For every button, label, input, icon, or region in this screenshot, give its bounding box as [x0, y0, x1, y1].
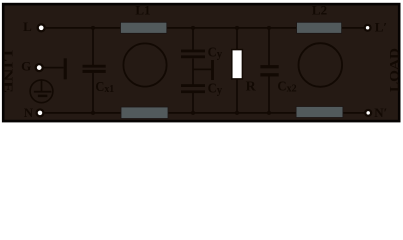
terminal N [37, 110, 44, 117]
choke 1 bottom winding bar [121, 107, 168, 119]
wire Cx2 branch upper [268, 28, 270, 66]
svg-text:Cx2: Cx2 [277, 80, 297, 95]
chassis stub plate at G [64, 58, 67, 79]
wire Cx2 branch lower [268, 76, 270, 113]
wire bottom rail [45, 112, 365, 114]
svg-text:L′: L′ [375, 20, 387, 35]
ground bar short [38, 95, 47, 97]
node junction top Cx2 [267, 26, 271, 30]
wire R branch upper [236, 28, 238, 50]
wire G terminal lead [44, 67, 64, 69]
capacitor Cx2 plate 2 [260, 73, 278, 76]
resistor R body [232, 50, 243, 79]
svg-text:R: R [246, 79, 257, 94]
inductor L2 winding bar [297, 22, 342, 33]
node junction bottom Cy [191, 111, 195, 115]
wire top rail [46, 27, 364, 29]
wire Cy midpoint stub [193, 68, 211, 70]
node junction bottom Cx1 [91, 111, 95, 115]
capacitor Cx1 plate 1 [83, 65, 106, 68]
node junction top R [235, 26, 239, 30]
svg-text:LOAD: LOAD [386, 48, 401, 92]
wire Cy branch upper [192, 28, 194, 51]
choke 1 core circle [123, 43, 166, 86]
svg-text:G: G [21, 58, 31, 73]
capacitor Cy upper plate 2 [181, 55, 205, 58]
svg-text:L2: L2 [312, 2, 327, 17]
capacitor Cy lower plate 2 [181, 90, 205, 93]
choke 2 bottom winding bar [296, 107, 343, 118]
node junction bottom R [235, 111, 239, 115]
node junction top Cy [191, 26, 195, 30]
svg-text:Cy: Cy [208, 82, 223, 97]
wire Cx1 branch lower [92, 73, 94, 113]
node junction top Cx1 [91, 26, 95, 30]
ground bar long [34, 91, 52, 93]
svg-text:N: N [24, 105, 34, 120]
choke 2 core circle [299, 43, 343, 87]
chassis stub plate at Cy midpoint [211, 60, 214, 80]
capacitor Cx2 plate 1 [260, 65, 278, 68]
inductor L1 winding bar [121, 22, 167, 33]
terminal G [36, 64, 43, 71]
terminal L [38, 24, 45, 31]
terminal N' [365, 110, 371, 116]
svg-text:L: L [23, 19, 32, 34]
terminal L' [365, 25, 371, 31]
capacitor Cy upper plate 1 [181, 50, 205, 53]
capacitor Cy lower plate 1 [181, 84, 205, 87]
svg-text:LINE: LINE [1, 50, 16, 93]
svg-text:L1: L1 [135, 2, 150, 17]
wire Cx1 branch upper [92, 28, 94, 65]
wire Cy branch middle [192, 59, 194, 85]
background margin [0, 0, 403, 127]
border frame [3, 4, 399, 121]
svg-text:Cy: Cy [208, 46, 223, 61]
svg-text:Cx1: Cx1 [95, 80, 114, 95]
capacitor Cx1 plate 2 [83, 70, 106, 73]
wire Cy branch lower [192, 93, 194, 113]
wire R branch lower [236, 79, 238, 113]
node junction bottom Cx2 [267, 111, 271, 115]
ground protective-earth circle [30, 80, 53, 103]
svg-text:N′: N′ [374, 105, 387, 120]
ground stem [41, 80, 43, 91]
